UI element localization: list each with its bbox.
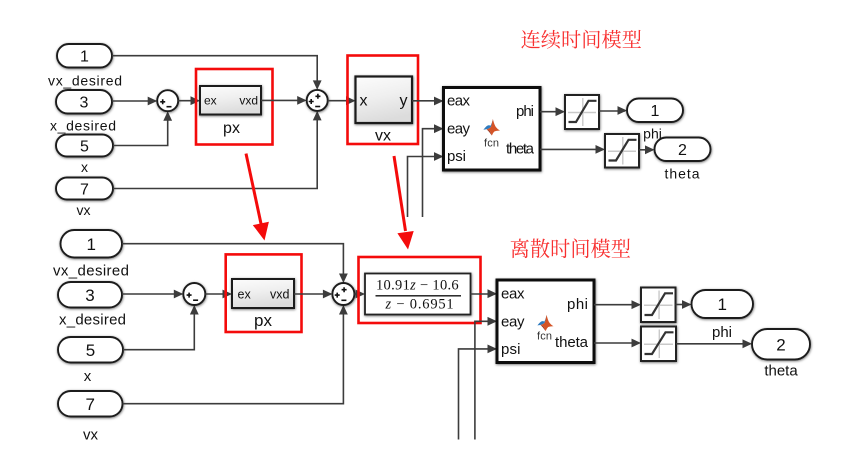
svg-text:x: x bbox=[84, 368, 92, 385]
wire In1 to sum S2 top bbox=[112, 56, 317, 88]
svg-text:vx: vx bbox=[375, 128, 391, 145]
output port 1 bbox=[627, 99, 683, 123]
svg-text:5: 5 bbox=[80, 138, 89, 155]
svg-text:x: x bbox=[81, 159, 88, 175]
red highlight box around px (discrete) bbox=[226, 254, 302, 332]
svg-text:ex: ex bbox=[238, 287, 252, 301]
wire saturation to Out1 bbox=[599, 110, 625, 112]
svg-text:3: 3 bbox=[80, 95, 89, 112]
svg-text:eay: eay bbox=[447, 120, 471, 137]
svg-text:1: 1 bbox=[87, 235, 96, 254]
red arrow px continuous to px discrete bbox=[246, 154, 262, 226]
input port 7 (discrete) bbox=[58, 391, 123, 417]
subsystem px bbox=[200, 86, 261, 115]
sum S1 bbox=[157, 90, 178, 111]
saturation block 2 (discrete) bbox=[641, 327, 676, 362]
MATLAB logo (discrete) bbox=[537, 315, 546, 326]
svg-text:vx_desired: vx_desired bbox=[53, 263, 129, 280]
wire In5 to sum S1 bottom bbox=[113, 113, 168, 146]
input port 5 bbox=[56, 135, 113, 157]
sum S2 (discrete) bbox=[332, 283, 354, 305]
wire In1 to sum S2 top (discrete) bbox=[122, 244, 343, 282]
svg-text:psi: psi bbox=[447, 148, 466, 165]
wire vx.y to fcn eax bbox=[412, 100, 442, 102]
svg-text:vx: vx bbox=[83, 427, 99, 444]
wire theta to saturation 2 bbox=[540, 148, 603, 150]
wire transfer fn to fcn eax (discrete) bbox=[471, 293, 496, 295]
svg-text:theta: theta bbox=[764, 363, 798, 380]
svg-text:phi: phi bbox=[567, 296, 588, 313]
svg-text:px: px bbox=[254, 311, 272, 330]
input port 3 bbox=[56, 90, 112, 114]
saturation block 1 (discrete) bbox=[641, 288, 676, 323]
wire (dangling) to fcn eay (discrete) bbox=[475, 321, 495, 439]
svg-text:phi: phi bbox=[516, 103, 534, 120]
svg-text:eax: eax bbox=[447, 93, 471, 110]
input port 7 bbox=[56, 178, 113, 200]
svg-text:theta: theta bbox=[665, 166, 700, 182]
wire In7 to sum S2 bottom bbox=[113, 113, 317, 189]
svg-text:2: 2 bbox=[776, 335, 785, 354]
saturation block 2 bbox=[605, 134, 639, 168]
wire px to sum S2 bbox=[261, 99, 305, 101]
svg-text:vxd: vxd bbox=[239, 94, 258, 108]
wire In3 to sum S1 bbox=[112, 100, 156, 102]
svg-text:fcn: fcn bbox=[537, 331, 552, 343]
svg-text:fcn: fcn bbox=[484, 138, 499, 150]
subsystem vx bbox=[356, 77, 413, 124]
svg-text:eay: eay bbox=[501, 313, 525, 330]
red highlight box around px bbox=[196, 69, 273, 145]
svg-text:vx: vx bbox=[77, 202, 91, 218]
wire (dangling) to fcn eay bbox=[423, 129, 442, 217]
svg-text:x: x bbox=[360, 93, 368, 110]
output port 1 (discrete) bbox=[692, 290, 754, 318]
wire (dangling) to fcn psi (discrete) bbox=[459, 349, 496, 440]
wire S1 to px (discrete) bbox=[205, 293, 230, 295]
MATLAB Function block (continuous) bbox=[444, 88, 541, 171]
svg-text:10.91z − 10.6: 10.91z − 10.6 bbox=[376, 278, 459, 294]
svg-text:7: 7 bbox=[86, 395, 95, 414]
sum S1 (discrete) bbox=[183, 283, 205, 305]
wire px to sum S2 (discrete) bbox=[294, 293, 331, 295]
title: continuous-time model (连续时间模型) bbox=[521, 30, 641, 49]
svg-text:7: 7 bbox=[80, 181, 89, 198]
wire saturation to Out1 (discrete) bbox=[676, 304, 690, 306]
svg-text:vx_desired: vx_desired bbox=[48, 73, 122, 89]
wire S1 to px bbox=[178, 100, 198, 102]
output port 2 (discrete) bbox=[752, 329, 810, 360]
input port 3 (discrete) bbox=[58, 282, 122, 308]
svg-text:z − 0.6951: z − 0.6951 bbox=[385, 297, 455, 313]
output port 2 bbox=[655, 138, 711, 162]
wire S2 to vx bbox=[328, 100, 354, 102]
transfer fn fraction line bbox=[376, 295, 462, 297]
red highlight box around discrete transfer fn bbox=[359, 257, 481, 323]
svg-text:y: y bbox=[400, 93, 408, 110]
wire (dangling) to fcn psi bbox=[408, 157, 442, 218]
svg-text:vxd: vxd bbox=[270, 287, 290, 301]
wire In5 to sum S1 bottom (discrete) bbox=[123, 307, 194, 350]
saturation block 1 bbox=[565, 95, 599, 129]
svg-text:theta: theta bbox=[506, 141, 535, 158]
svg-text:px: px bbox=[223, 120, 240, 137]
MATLAB logo bbox=[483, 119, 493, 130]
wire In7 to sum S2 bottom (discrete) bbox=[123, 307, 344, 404]
svg-text:x_desired: x_desired bbox=[59, 311, 126, 328]
discrete transfer fn block bbox=[365, 274, 471, 315]
input port 1 (discrete) bbox=[61, 230, 123, 258]
input port 1 bbox=[57, 44, 112, 68]
title: discrete-time model (离散时间模型) bbox=[511, 238, 630, 258]
red arrow vx to discrete transfer fn bbox=[394, 156, 406, 231]
svg-text:1: 1 bbox=[718, 295, 727, 314]
svg-text:ex: ex bbox=[204, 94, 217, 108]
wire saturation 2 to Out2 (discrete) bbox=[676, 343, 750, 345]
svg-text:1: 1 bbox=[651, 103, 660, 120]
wire phi to saturation (discrete) bbox=[594, 304, 639, 306]
svg-text:theta: theta bbox=[555, 334, 589, 351]
red highlight box around vx bbox=[348, 56, 419, 145]
wire theta to saturation 2 (discrete) bbox=[594, 342, 639, 344]
input port 5 (discrete) bbox=[58, 337, 123, 363]
svg-text:5: 5 bbox=[86, 341, 95, 360]
svg-text:phi: phi bbox=[712, 324, 732, 341]
wire In3 to sum S1 (discrete) bbox=[122, 293, 182, 295]
MATLAB Function block (discrete) bbox=[497, 280, 594, 363]
wire S2 to transfer fn bbox=[354, 293, 363, 295]
svg-text:x_desired: x_desired bbox=[50, 118, 116, 134]
svg-text:psi: psi bbox=[501, 341, 521, 358]
wire saturation 2 to Out2 bbox=[639, 149, 653, 151]
wire phi to saturation bbox=[540, 111, 563, 113]
svg-text:eax: eax bbox=[501, 286, 525, 303]
svg-text:1: 1 bbox=[80, 49, 89, 66]
svg-text:3: 3 bbox=[85, 286, 94, 305]
sum S2 bbox=[307, 90, 328, 111]
subsystem px (discrete) bbox=[232, 279, 294, 308]
svg-text:2: 2 bbox=[678, 142, 687, 159]
